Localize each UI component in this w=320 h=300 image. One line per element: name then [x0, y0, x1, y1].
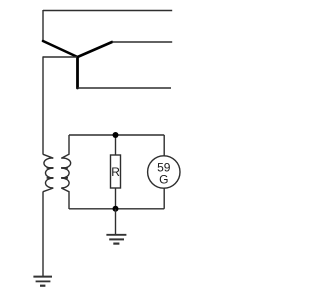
wire generator top lead	[163, 135, 165, 156]
junction dot bottom	[113, 206, 119, 212]
switch blade lower arm	[76, 57, 79, 88]
switch blade upper-left arm	[43, 41, 78, 57]
L1 winding junction ticks	[47, 168, 54, 178]
ground center	[106, 235, 126, 244]
wire top-left vertical drop	[42, 10, 44, 41]
wire ground drop center	[115, 209, 117, 235]
generator G circle	[148, 156, 180, 188]
svg-text:R: R	[111, 165, 120, 179]
wire resistor top lead	[115, 135, 117, 155]
wire switch pole horizontal	[43, 56, 77, 58]
wire left vertical to ground	[42, 192, 44, 277]
wire generator bottom lead	[163, 188, 165, 209]
ground left	[33, 277, 52, 286]
svg-text:G: G	[159, 173, 168, 187]
switch blade upper-right arm	[78, 42, 113, 57]
L2 winding junction ticks	[61, 168, 68, 178]
wire box top rail	[69, 134, 164, 136]
wire resistor bottom lead	[115, 188, 117, 209]
wire left vertical to coil	[42, 56, 44, 154]
junction dot top	[113, 132, 119, 138]
wire lower horizontal rail	[78, 87, 172, 89]
inductor L1 primary winding	[43, 154, 53, 191]
wire box bottom rail	[69, 208, 164, 210]
wire top horizontal rail	[43, 10, 172, 12]
inductor L2 secondary winding	[61, 135, 70, 209]
resistor R	[111, 155, 121, 188]
wire middle horizontal rail	[112, 41, 172, 43]
